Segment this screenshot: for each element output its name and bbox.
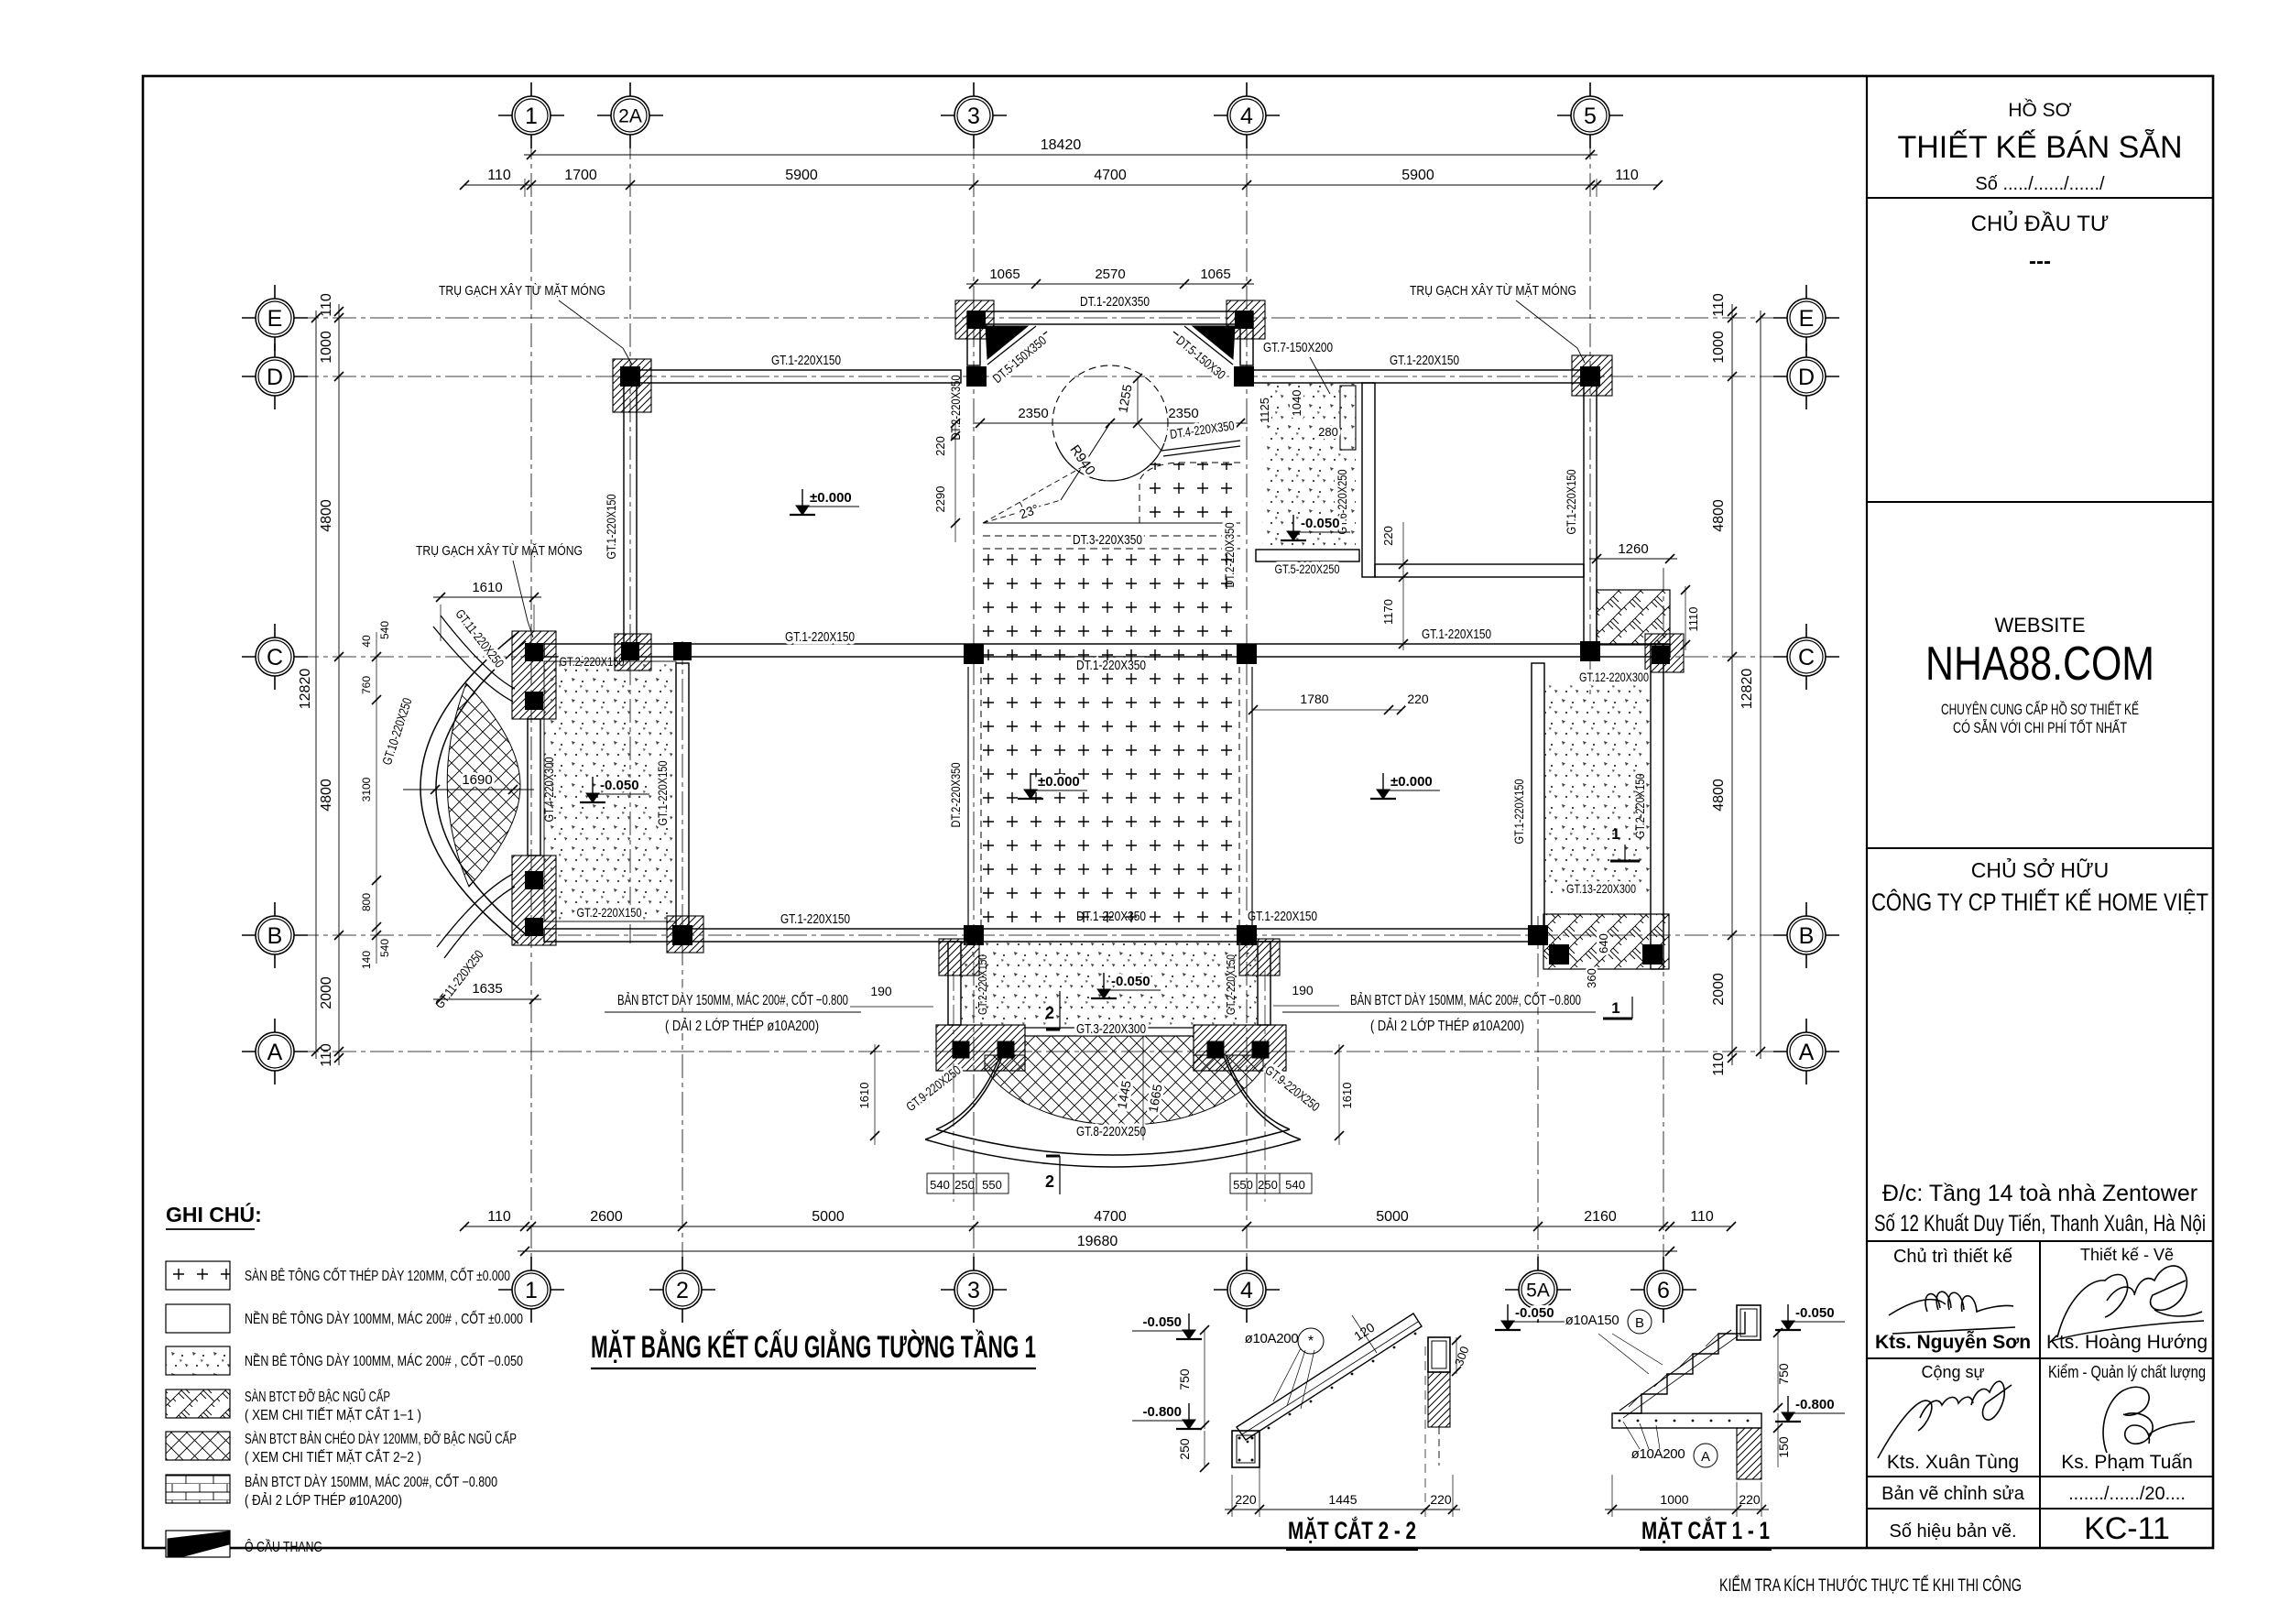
- grid circle 4 top: [1214, 114, 1280, 116]
- svg-text:GT.1-220X150: GT.1-220X150: [771, 353, 841, 368]
- legend swatch: [166, 1390, 230, 1418]
- horizontal grid line B: [295, 934, 1786, 936]
- title block left edge: [1866, 76, 1868, 1548]
- svg-text:BẢN BTCT DÀY 150MM, MÁC 200#,: BẢN BTCT DÀY 150MM, MÁC 200#, CỐT −0.800: [1350, 990, 1581, 1008]
- bay E wall GT/DT.1-220X350: [967, 311, 1253, 324]
- column B/5A: [1528, 925, 1548, 945]
- svg-text:1780: 1780: [1300, 692, 1328, 706]
- svg-text:360: 360: [1585, 968, 1598, 988]
- svg-text:C: C: [267, 645, 283, 670]
- dim 1635 porch bottom: [433, 998, 541, 1000]
- svg-text:1040: 1040: [1290, 390, 1303, 417]
- grid circle A left: [242, 1051, 308, 1052]
- section 1-1 steps profile: [1614, 1312, 1745, 1413]
- section 1-1 dim 750 right: [1777, 1330, 1779, 1411]
- legend swatch: [166, 1475, 230, 1503]
- legend swatch: [166, 1346, 230, 1375]
- vertical grid line 6: [1663, 568, 1664, 1270]
- svg-text:-0.800: -0.800: [1142, 1404, 1182, 1420]
- svg-text:GT.1-220X150: GT.1-220X150: [655, 760, 670, 825]
- svg-text:( ĐẢI 2 LỚP THÉP ø10A200): ( ĐẢI 2 LỚP THÉP ø10A200): [245, 1493, 402, 1509]
- grid circle B left: [242, 934, 308, 936]
- grid circle 5A bottom: [1505, 1289, 1571, 1291]
- svg-text:540: 540: [930, 1178, 950, 1192]
- crescent crosshatch fill: [447, 683, 520, 887]
- dim 1610 porch top: [433, 596, 541, 598]
- column at bay D left: [966, 366, 987, 387]
- front porch left wall GT.2-220X150: [948, 942, 961, 1025]
- svg-text:SÀN BTCT BẢN CHÉO DÀY 120MM, Đ: SÀN BTCT BẢN CHÉO DÀY 120MM, ĐỠ BẬC NGŨ …: [245, 1432, 517, 1447]
- grid circle B right: [1773, 934, 1839, 936]
- bay dim 1065/2570/1065: [966, 283, 1254, 285]
- hatched pier porch lower: [512, 856, 556, 945]
- svg-text:MẶT CẮT 1 - 1: MẶT CẮT 1 - 1: [1641, 1516, 1770, 1544]
- svg-text:ø10A150: ø10A150: [1565, 1313, 1619, 1328]
- svg-text:GT.2-220X150: GT.2-220X150: [577, 905, 642, 920]
- svg-text:5900: 5900: [1401, 168, 1434, 183]
- svg-text:110: 110: [1690, 1209, 1714, 1225]
- svg-text:CHUYÊN CUNG CẤP HỒ SƠ THIẾT KẾ: CHUYÊN CUNG CẤP HỒ SƠ THIẾT KẾ: [1941, 701, 2139, 718]
- svg-text:1610: 1610: [857, 1083, 871, 1109]
- horizontal grid line C: [295, 656, 1786, 658]
- dim 1610 right porch vertical: [1338, 1044, 1340, 1145]
- svg-text:TRỤ GẠCH XÂY TỪ MẶT MÓNG: TRỤ GẠCH XÂY TỪ MẶT MÓNG: [416, 543, 583, 559]
- svg-text:2160: 2160: [1584, 1209, 1617, 1225]
- stipple room right of bay (-0.050): [1262, 383, 1356, 548]
- dimension 18420 top: [524, 154, 1598, 156]
- svg-text:220: 220: [933, 436, 947, 456]
- svg-text:18420: 18420: [1041, 137, 1082, 153]
- svg-text:TRỤ GẠCH XÂY TỪ MẶT MÓNG: TRỤ GẠCH XÂY TỪ MẶT MÓNG: [1410, 283, 1576, 299]
- section 2-2 right wall hatched: [1428, 1372, 1450, 1427]
- svg-text:Ks. Phạm Tuấn: Ks. Phạm Tuấn: [2061, 1452, 2193, 1473]
- grid circle 2 bottom: [649, 1289, 715, 1291]
- legend swatch: [166, 1304, 230, 1333]
- svg-text:GT.1-220X150: GT.1-220X150: [780, 911, 850, 927]
- front porch stipple floor -0.050: [961, 942, 1258, 1025]
- svg-text:640: 640: [1597, 933, 1610, 954]
- svg-text:110: 110: [1711, 293, 1727, 317]
- svg-text:110: 110: [487, 168, 511, 183]
- svg-text:CHỦ ĐẦU TƯ: CHỦ ĐẦU TƯ: [1971, 210, 2110, 236]
- dim box 540/250/550 left: [927, 1173, 1009, 1193]
- svg-text:GT.8-220X250: GT.8-220X250: [1076, 1124, 1146, 1139]
- svg-text:110: 110: [319, 1043, 334, 1067]
- svg-text:Kiểm - Quản lý chất lượng: Kiểm - Quản lý chất lượng: [2048, 1363, 2206, 1381]
- vertical grid line 2: [682, 641, 683, 1270]
- dim box 550/250/540 right: [1230, 1173, 1312, 1193]
- svg-text:GT.1-220X150: GT.1-220X150: [1422, 627, 1491, 642]
- svg-text:Kts. Hoàng Hướng: Kts. Hoàng Hướng: [2046, 1332, 2208, 1353]
- svg-text:GT.7-150X200: GT.7-150X200: [1263, 340, 1333, 355]
- svg-text:1170: 1170: [1381, 599, 1395, 625]
- grid circle 3 bottom: [941, 1289, 1007, 1291]
- svg-text:±0.000: ±0.000: [1390, 774, 1433, 790]
- vertical grid line 5A: [1537, 916, 1539, 1270]
- signature Nguyen Son: [1889, 1292, 2013, 1315]
- section 2-2 slanted slab: [1237, 1313, 1422, 1440]
- horizontal grid line A: [295, 1051, 1786, 1052]
- svg-text:5900: 5900: [785, 168, 818, 183]
- svg-text:250: 250: [954, 1178, 975, 1192]
- svg-text:3100: 3100: [360, 777, 373, 801]
- column C/4: [1237, 644, 1257, 664]
- svg-text:( XEM CHI TIẾT MẶT CẮT 2−2 ): ( XEM CHI TIẾT MẶT CẮT 2−2 ): [245, 1449, 421, 1466]
- grid circle 2A top: [597, 114, 663, 116]
- svg-text:4800: 4800: [1711, 499, 1727, 532]
- svg-text:Số ...../....../....../: Số ...../....../....../: [1975, 174, 2105, 194]
- grid circle 6 bottom: [1630, 1289, 1696, 1291]
- dim 2350 2350 in bay: [973, 422, 1248, 424]
- grid circle D left: [242, 376, 308, 377]
- svg-text:1260: 1260: [1618, 541, 1648, 557]
- svg-text:800: 800: [360, 893, 373, 911]
- svg-text:C: C: [1798, 645, 1815, 670]
- level -0.050 left porch: [592, 777, 594, 799]
- svg-text:3: 3: [967, 1278, 980, 1303]
- svg-text:1635: 1635: [472, 981, 502, 997]
- column D/2A: [620, 366, 640, 387]
- column B/3: [964, 925, 984, 945]
- svg-text:Đ/c: Tầng 14 toà nhà Zentower: Đ/c: Tầng 14 toà nhà Zentower: [1882, 1181, 2197, 1206]
- svg-text:1: 1: [525, 1278, 538, 1303]
- wall grid2 vertical GT.4/GT.1: [676, 663, 689, 929]
- svg-text:750: 750: [1177, 1368, 1192, 1390]
- partition wall horizontal y623 to grid5: [1375, 564, 1584, 577]
- section 2-2 level -0.800 left: [1188, 1403, 1190, 1425]
- svg-text:1690: 1690: [462, 772, 492, 788]
- svg-text:( XEM CHI TIẾT MẶT CẮT 1−1 ): ( XEM CHI TIẾT MẶT CẮT 1−1 ): [245, 1407, 421, 1423]
- columns left landing: [953, 1041, 970, 1059]
- hatched pier bay top-right: [1227, 300, 1265, 339]
- svg-text:1445: 1445: [1328, 1492, 1357, 1507]
- svg-text:KIỂM TRA KÍCH THƯỚC THỰC TẾ KH: KIỂM TRA KÍCH THƯỚC THỰC TẾ KHI THI CÔNG: [1719, 1575, 2022, 1596]
- svg-text:1700: 1700: [564, 168, 597, 183]
- dimension 19680 bottom: [518, 1250, 1677, 1252]
- hatched pier porch upper: [512, 631, 556, 719]
- svg-text:D: D: [1798, 365, 1815, 390]
- vertical grid line 4: [1246, 136, 1248, 1270]
- svg-text:Kts. Xuân Tùng: Kts. Xuân Tùng: [1887, 1452, 2019, 1473]
- svg-text:GT.1-220X150: GT.1-220X150: [1511, 779, 1526, 844]
- svg-text:750: 750: [1776, 1363, 1791, 1385]
- svg-text:2: 2: [1045, 1172, 1054, 1191]
- column at bay D right: [1234, 366, 1254, 387]
- hatched corner pier B/2: [667, 916, 703, 953]
- svg-text:1: 1: [1611, 999, 1619, 1017]
- svg-text:GT.12-220X300: GT.12-220X300: [1579, 670, 1649, 684]
- stair room stipple floor: [1544, 685, 1651, 894]
- svg-text:-0.050: -0.050: [1111, 974, 1150, 989]
- bay left wall grid3 E-D: [967, 324, 980, 365]
- left porch stipple floor: [544, 661, 676, 921]
- svg-text:-0.050: -0.050: [1515, 1305, 1554, 1321]
- column B/4: [1237, 925, 1257, 945]
- svg-text:CHỦ SỞ HỮU: CHỦ SỞ HỮU: [1971, 856, 2110, 882]
- arc GT.8 bottom: [936, 1129, 1290, 1155]
- column C/6 area: [1652, 646, 1670, 664]
- 23 degree wedge dashed lines: [983, 463, 1090, 523]
- front porch right wall GT.2-220X150: [1258, 942, 1270, 1025]
- svg-text:TRỤ GẠCH XÂY TỪ MẶT MÓNG: TRỤ GẠCH XÂY TỪ MẶT MÓNG: [439, 283, 605, 299]
- section 2-2 dim 300 right: [1456, 1337, 1457, 1374]
- svg-text:A: A: [1799, 1040, 1815, 1065]
- title block signature column divider: [2039, 1241, 2041, 1548]
- svg-text:HỒ SƠ: HỒ SƠ: [2008, 99, 2071, 121]
- svg-text:SÀN BTCT ĐỠ BẬC NGŨ CẤP: SÀN BTCT ĐỠ BẬC NGŨ CẤP: [245, 1390, 390, 1405]
- section 1-1 right wall hatched: [1737, 1428, 1761, 1479]
- svg-text:1: 1: [525, 104, 538, 129]
- section mark 2 lower: [1059, 1156, 1061, 1194]
- svg-text:110: 110: [1615, 168, 1639, 183]
- svg-text:*: *: [1308, 1334, 1314, 1349]
- svg-text:GT.1-220X150: GT.1-220X150: [1564, 469, 1578, 534]
- hatched pier porch left top: [939, 939, 979, 975]
- dashed circle R940: [1052, 365, 1168, 481]
- svg-text:2570: 2570: [1095, 267, 1125, 282]
- svg-text:4800: 4800: [319, 499, 334, 532]
- section 1-1 level -0.050 right: [1787, 1304, 1789, 1326]
- svg-text:-0.050: -0.050: [1142, 1314, 1182, 1330]
- section mark 1 upper: [1610, 860, 1640, 863]
- dim 1690 inside crescent: [403, 789, 534, 790]
- svg-text:-0.050: -0.050: [1301, 516, 1340, 531]
- partition wall x1494 D to y630: [1362, 383, 1375, 577]
- dimension 12820 left: [315, 311, 317, 1059]
- grid circle E left: [242, 317, 308, 319]
- svg-text:NỀN BÊ TÔNG DÀY 100MM, MÁC 200: NỀN BÊ TÔNG DÀY 100MM, MÁC 200# , CỐT ±0…: [245, 1311, 523, 1327]
- wall GT.1-220X150 on D grid4-grid5: [1253, 370, 1597, 383]
- section 2-2 bottom dims 220/1445/220: [1225, 1509, 1460, 1510]
- svg-text:2000: 2000: [1711, 973, 1727, 1006]
- dimension 12820 right: [1760, 311, 1761, 1059]
- svg-text:Kts. Nguyễn Sơn: Kts. Nguyễn Sơn: [1875, 1331, 2031, 1353]
- svg-text:1000: 1000: [1660, 1492, 1688, 1507]
- wall GT.1-220X150 on D grid2A-grid3: [624, 370, 961, 383]
- column at bay E right: [1235, 311, 1253, 329]
- svg-text:5: 5: [1584, 104, 1597, 129]
- wall on B grid3-grid4 DT.1-220X350: [974, 929, 1247, 942]
- svg-text:B: B: [267, 923, 283, 949]
- svg-text:250: 250: [1177, 1438, 1192, 1460]
- svg-text:KC-11: KC-11: [2084, 1511, 2170, 1546]
- column D/5: [1580, 366, 1600, 387]
- svg-text:-0.050: -0.050: [600, 778, 639, 793]
- section 2-2 right column: [1428, 1337, 1450, 1372]
- svg-text:2: 2: [676, 1278, 689, 1303]
- svg-text:GHI CHÚ:: GHI CHÚ:: [166, 1202, 262, 1226]
- svg-text:550: 550: [1233, 1178, 1253, 1192]
- dim 1260 right pad: [1589, 558, 1677, 560]
- svg-text:2350: 2350: [1018, 406, 1048, 421]
- svg-text:5A: 5A: [1526, 1281, 1550, 1302]
- legend swatch: [166, 1432, 230, 1460]
- level -0.050 front porch: [1103, 973, 1105, 995]
- wall grid5 vertical GT.1-220X150: [1584, 383, 1597, 650]
- svg-text:140: 140: [360, 951, 373, 969]
- level +-0.000 right room: [1382, 773, 1384, 795]
- arc GT.9 right outer: [1220, 1046, 1301, 1139]
- svg-text:---: ---: [2029, 249, 2051, 274]
- hatched pier C right end: [1645, 634, 1684, 672]
- svg-text:A: A: [267, 1040, 283, 1065]
- svg-text:12820: 12820: [298, 669, 313, 710]
- hatched pier at D/5: [1572, 355, 1612, 396]
- vertical grid line 3: [973, 136, 975, 1270]
- section 2-2 level -0.050 left: [1188, 1313, 1190, 1335]
- svg-text:220: 220: [1381, 526, 1395, 546]
- columns in upper porch pier: [525, 643, 543, 661]
- svg-text:4: 4: [1240, 1278, 1253, 1303]
- section 1-1 bottom slab: [1612, 1413, 1761, 1428]
- svg-text:......./....../20....: ......./....../20....: [2068, 1484, 2186, 1504]
- section 1-1 level -0.800 right: [1787, 1396, 1789, 1418]
- svg-text:220: 220: [1430, 1492, 1452, 1507]
- svg-text:ø10A200: ø10A200: [1245, 1331, 1299, 1346]
- svg-text:550: 550: [982, 1178, 1002, 1192]
- horizontal grid line E: [295, 317, 1786, 319]
- svg-text:NHA88.COM: NHA88.COM: [1925, 638, 2154, 691]
- right dim column 110/1000/4800/4800/2000/110: [1731, 304, 1733, 1065]
- dim 1780/220 room right of grid4: [1253, 709, 1401, 711]
- hatched pier bay top-left: [955, 300, 994, 339]
- black wedge left chamfer: [986, 326, 1028, 359]
- svg-text:MẶT CẮT 2 - 2: MẶT CẮT 2 - 2: [1288, 1516, 1416, 1544]
- herringbone pad right of grid5 above C: [1597, 590, 1670, 645]
- herringbone pad below B right: [1543, 914, 1669, 969]
- arc GT.11-220X250 bottom: [444, 887, 515, 958]
- svg-text:NỀN BÊ TÔNG DÀY 100MM, MÁC 200: NỀN BÊ TÔNG DÀY 100MM, MÁC 200# , CỐT −0…: [245, 1353, 523, 1369]
- svg-text:MẶT BẰNG KẾT CẤU GIẰNG TƯỜNG T: MẶT BẰNG KẾT CẤU GIẰNG TƯỜNG TẦNG 1: [591, 1330, 1036, 1365]
- wall on B grid4-5A: [1247, 929, 1544, 942]
- svg-text:1125: 1125: [1258, 398, 1271, 423]
- section 1-1 sloped rebar line: [1619, 1330, 1731, 1411]
- svg-text:GT.1-220X150: GT.1-220X150: [604, 494, 618, 559]
- svg-text:CÓ SẴN VỚI CHI PHÍ TỐT NHẤT: CÓ SẴN VỚI CHI PHÍ TỐT NHẤT: [1953, 718, 2127, 736]
- arc GT.9 left outer: [925, 1046, 1006, 1139]
- columns in lower porch pier: [525, 871, 543, 889]
- svg-text:Chủ trì thiết kế: Chủ trì thiết kế: [1893, 1247, 2012, 1267]
- svg-text:THIẾT KẾ BÁN SẴN: THIẾT KẾ BÁN SẴN: [1897, 130, 2182, 165]
- grid circle 5 top: [1557, 114, 1623, 116]
- svg-text:2: 2: [1045, 1004, 1054, 1022]
- bay interior bottom line: [983, 522, 1240, 524]
- svg-text:150: 150: [1776, 1436, 1791, 1458]
- svg-text:SÀN BÊ TÔNG CỐT THÉP DÀY 120MM: SÀN BÊ TÔNG CỐT THÉP DÀY 120MM, CỐT ±0.0…: [245, 1268, 510, 1284]
- level +-0.000 room D-C left: [801, 489, 803, 511]
- svg-text:Thiết kế - Vẽ: Thiết kế - Vẽ: [2080, 1246, 2174, 1264]
- vertical grid line 5: [1589, 136, 1591, 696]
- section 2-2 dim 750 left: [1204, 1330, 1205, 1429]
- plus region upper patch right of circle: [1143, 463, 1238, 523]
- svg-text:4800: 4800: [319, 779, 334, 812]
- svg-text:19680: 19680: [1077, 1234, 1118, 1249]
- svg-text:BẢN BTCT DÀY 150MM, MÁC 200#,: BẢN BTCT DÀY 150MM, MÁC 200#, CỐT −0.800: [245, 1474, 497, 1490]
- svg-text:1065: 1065: [989, 267, 1020, 282]
- svg-text:190: 190: [1292, 983, 1314, 997]
- svg-text:GT.1-220X150: GT.1-220X150: [785, 629, 855, 645]
- left dim column 110/1000/4800/4800/2000/110: [338, 304, 340, 1065]
- svg-text:1: 1: [1611, 825, 1619, 843]
- right landing hatched slab: [1194, 1025, 1286, 1071]
- grid circle 1 bottom: [498, 1289, 564, 1291]
- signature Hoang Huong: [2057, 1266, 2202, 1337]
- dimension row top 110/1700/5900/4700/5900/110: [464, 184, 1658, 186]
- grid circle C left: [242, 656, 308, 658]
- chamfer beam DT.5 right (diagonal): [1184, 326, 1233, 365]
- section 2-2 dim 250: [1204, 1431, 1205, 1467]
- column C/2A: [621, 642, 639, 660]
- svg-text:Cộng sự: Cộng sự: [1921, 1363, 1984, 1381]
- reinforced slab plus-pattern region (SAN BTCT +-0.000): [982, 552, 1238, 929]
- svg-text:B: B: [1635, 1315, 1644, 1331]
- svg-text:±0.000: ±0.000: [1038, 774, 1080, 790]
- svg-text:DT.3-220X350: DT.3-220X350: [1073, 532, 1142, 548]
- stair room left wall GT.1-220X150 vertical: [1532, 663, 1544, 929]
- grid circle A right: [1773, 1051, 1839, 1052]
- svg-text:5000: 5000: [1376, 1209, 1409, 1225]
- svg-text:4800: 4800: [1711, 779, 1727, 812]
- porch wall GT.4-220X300 vertical: [528, 719, 540, 856]
- wall on C from 2A to grid6 (GT.1/DT.1/GT.12): [637, 644, 1670, 657]
- svg-text:BẢN BTCT DÀY 150MM, MÁC 200#,: BẢN BTCT DÀY 150MM, MÁC 200#, CỐT −0.800: [617, 990, 848, 1008]
- svg-text:DT.2-220X350: DT.2-220X350: [948, 762, 963, 827]
- dim 1110 rotated right pad: [1685, 586, 1686, 650]
- svg-text:2600: 2600: [590, 1209, 623, 1225]
- wall on C from porch to 2A: [544, 644, 630, 657]
- chamfer beam DT.5 left (diagonal): [987, 326, 1036, 365]
- extension lines top dims: [524, 179, 526, 197]
- column C/5: [1580, 641, 1600, 661]
- columns right landing: [1207, 1041, 1225, 1059]
- horizontal grid line D: [295, 376, 1786, 377]
- svg-text:GT.1-220X150: GT.1-220X150: [1390, 353, 1459, 368]
- svg-text:A: A: [1701, 1449, 1710, 1465]
- svg-text:4: 4: [1240, 104, 1253, 129]
- vertical grid line 2A: [629, 136, 631, 943]
- bottom dim row 110/2600/5000/4700/5000/2160/110: [464, 1226, 1731, 1227]
- column C/2: [673, 642, 692, 660]
- section mark 1 lower: [1603, 1018, 1632, 1020]
- svg-text:6: 6: [1657, 1278, 1670, 1303]
- svg-text:GT.1-220X150: GT.1-220X150: [1248, 909, 1317, 924]
- wall on B from pier to grid3: [544, 929, 974, 942]
- grid circle 1 top: [498, 114, 564, 116]
- svg-text:5000: 5000: [812, 1209, 845, 1225]
- svg-text:-0.050: -0.050: [1795, 1305, 1835, 1321]
- svg-text:Ô CẦU THANG: Ô CẦU THANG: [245, 1540, 322, 1555]
- arc GT.11-220X250 top: [441, 616, 515, 689]
- svg-text:540: 540: [378, 621, 391, 639]
- legend swatch: [166, 1261, 230, 1290]
- signature Pham Tuan: [2103, 1387, 2195, 1453]
- svg-text:GT.13-220X300: GT.13-220X300: [1566, 881, 1636, 896]
- crosshatch apron front porch: [985, 1036, 1263, 1125]
- svg-text:190: 190: [870, 984, 892, 998]
- black wedge right chamfer: [1193, 326, 1235, 359]
- beam GT.3-220X300: [1025, 1027, 1194, 1029]
- svg-text:280: 280: [1318, 425, 1338, 439]
- svg-text:12820: 12820: [1739, 669, 1755, 710]
- svg-text:1000: 1000: [1711, 331, 1727, 364]
- svg-text:D: D: [267, 365, 283, 390]
- signature Xuan Tung: [1878, 1381, 2012, 1458]
- column B/2: [672, 925, 692, 945]
- column at bay E left: [967, 311, 986, 329]
- bay right wall grid4 E-D: [1240, 324, 1253, 365]
- svg-text:110: 110: [319, 293, 334, 317]
- dim 1610 left porch vertical: [874, 1044, 876, 1145]
